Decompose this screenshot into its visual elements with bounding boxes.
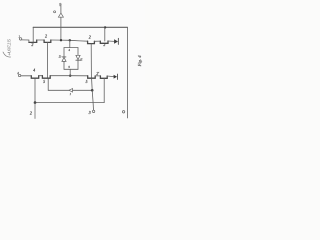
T2 gate wire down to T6 (47, 42, 49, 78)
label 6 circle (54, 11, 56, 13)
wire T5-T6 (39, 75, 43, 77)
svg-text:3: 3 (89, 110, 91, 115)
wire T7 gate down to L2 (91, 90, 94, 102)
right edge wire (126, 27, 128, 118)
transistor T7 (88, 76, 96, 78)
input terminal 1 (19, 38, 21, 40)
input terminal 2 (18, 74, 20, 76)
wire input2 to T5 (21, 75, 32, 77)
output arrow 2 (solid, right) (114, 75, 118, 79)
svg-text:Fig. 4: Fig. 4 (137, 55, 142, 68)
supply lead to node (60, 17, 62, 40)
svg-text:4: 4 (33, 69, 35, 73)
arrow 2 bar (117, 74, 119, 79)
wire T1-T2 (37, 39, 44, 41)
node dot supply tap (60, 39, 62, 41)
node dot L1/T7 gate (91, 89, 94, 92)
svg-text:5: 5 (43, 80, 45, 84)
diode D1 branch (left, pointing up) (63, 48, 65, 57)
T3 gate wire down to T7 (90, 44, 92, 78)
box bottom bar (64, 68, 78, 70)
box bottom lead (69, 69, 71, 75)
T8 drain lead down to L2 (103, 78, 105, 102)
svg-text:2: 2 (45, 34, 47, 39)
diode pair box : top lead (69, 40, 71, 47)
svg-text:1: 1 (18, 35, 20, 39)
terminal 3 circle (92, 110, 94, 112)
output arrow (solid, right) (114, 39, 118, 44)
T6 gate lead down (47, 79, 49, 91)
transistor T8 (100, 76, 107, 78)
diode D2 branch (right, pointing down) (77, 48, 79, 56)
T5 gate wire down (34, 79, 36, 103)
transistor T6 (42, 76, 50, 79)
wire input to T1 (22, 40, 29, 43)
svg-text:D: D (58, 54, 62, 58)
wire L2 bottom bus (35, 102, 104, 104)
wire T2 to T3 (51, 40, 88, 41)
terminal 3 stub (92, 103, 94, 111)
svg-text:2: 2 (89, 35, 91, 40)
supply arrowhead (open, up) (58, 13, 63, 17)
terminal circle right bottom (122, 111, 124, 113)
node dot diode tap (69, 39, 71, 41)
wire L1 gate bus (48, 89, 92, 91)
T5 gate tail below L2 (34, 103, 36, 119)
svg-text:5: 5 (86, 80, 88, 84)
wire T7-T8 (95, 75, 100, 77)
box top bar (64, 47, 78, 49)
transistor T4 (100, 41, 108, 43)
node dot bottom wire (69, 75, 71, 77)
L1 open arrow (left) (69, 89, 73, 93)
svg-text:2: 2 (31, 42, 33, 47)
wire T4 to arrow (108, 40, 114, 42)
transistor T5 (31, 76, 38, 79)
svg-text:2: 2 (17, 71, 19, 75)
transistor T1 (29, 40, 37, 42)
supply lead upper (60, 5, 62, 13)
svg-text:2: 2 (30, 110, 32, 115)
T7 gate lead down (91, 79, 94, 91)
junction dot rail/T4 (104, 26, 106, 28)
node dot L2/T5 gate (34, 101, 37, 104)
leader squiggle (3, 52, 11, 57)
top rail (33, 26, 127, 28)
wire T3-T4 (94, 40, 100, 42)
svg-text:2: 2 (103, 42, 105, 47)
svg-text:2′: 2′ (96, 72, 99, 76)
arrow bar (117, 38, 119, 44)
wire T8 to arrow2 (107, 75, 113, 78)
wire T6 to T7 (50, 75, 87, 77)
transistor T2 (44, 40, 51, 42)
transistor T3 (88, 41, 95, 43)
